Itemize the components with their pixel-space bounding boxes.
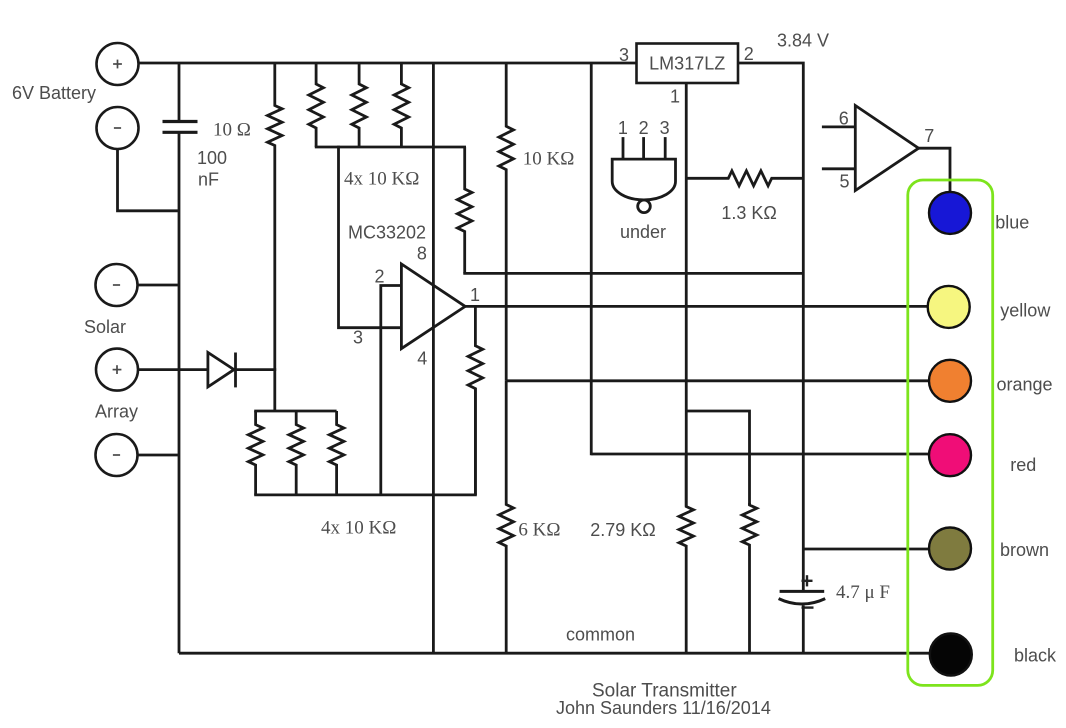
solar plus terminal — [96, 349, 138, 391]
wire top supply rail — [139, 62, 637, 65]
svg-text:2: 2 — [744, 44, 754, 64]
connector panel green outline — [908, 180, 993, 685]
voltage regulator U2 LM317LZ box — [637, 44, 739, 84]
svg-text:2: 2 — [374, 267, 384, 287]
wire regulator output to 3.84V node — [738, 63, 803, 591]
buffer U4 triangle — [855, 106, 918, 191]
resistor R11 6K — [499, 381, 514, 653]
svg-text:3.84 V: 3.84 V — [777, 31, 829, 51]
wire resistor R5 to regulator node — [463, 272, 803, 275]
wire inverting input pin 2 — [381, 286, 402, 495]
wire battery minus to node — [118, 149, 178, 211]
resistor R14 2.79K right — [742, 503, 757, 653]
wire op-amp supply column — [432, 63, 435, 653]
wire bus bar under resistor pack — [315, 146, 466, 149]
capacitor C2 curved plate — [779, 599, 826, 604]
wire ground bar under bottom pack — [254, 493, 477, 496]
wire solar plus to diode — [138, 368, 208, 371]
svg-text:1: 1 — [618, 118, 628, 138]
svg-text:1: 1 — [670, 87, 680, 107]
svg-text:10 KΩ: 10 KΩ — [523, 149, 575, 170]
resistor R5 feedback upper — [457, 147, 472, 273]
wire capacitor to common — [802, 606, 805, 654]
svg-text:Solar: Solar — [84, 317, 126, 337]
svg-text:4.7 μ F: 4.7 μ F — [836, 582, 890, 603]
wire capacitor down left column — [178, 134, 181, 654]
diode D1 — [208, 353, 234, 387]
wire buffer output to blue — [919, 148, 950, 192]
op-amp U1 MC33202 — [401, 264, 465, 349]
resistor R10 10K — [329, 411, 344, 495]
terminal black — [930, 634, 972, 676]
terminal red — [929, 434, 971, 476]
resistor R9 10K — [289, 411, 304, 495]
resistor R13 2.79K left — [679, 454, 694, 653]
capacitor C2 4.7uF plus sign — [802, 580, 813, 582]
wire red line — [591, 453, 928, 456]
wire regulator adjust pin 1 column — [685, 83, 688, 507]
svg-text:6: 6 — [839, 108, 849, 128]
resistor R2 10K — [309, 63, 324, 147]
svg-text:2.79 KΩ: 2.79 KΩ — [590, 520, 656, 540]
resistor R8 10K — [248, 411, 263, 495]
svg-text:10 Ω: 10 Ω — [213, 120, 251, 141]
wire jog to second divider resistor — [686, 411, 749, 505]
solar minus terminal lower — [96, 434, 138, 476]
svg-text:blue: blue — [995, 213, 1029, 233]
svg-text:orange: orange — [997, 374, 1053, 394]
svg-text:7: 7 — [924, 126, 934, 146]
capacitor C2 top plate — [780, 590, 825, 593]
wire solar minus lower — [138, 454, 178, 457]
svg-text:4x 10 KΩ: 4x 10 KΩ — [321, 518, 396, 539]
capacitor C2 minus sign — [802, 606, 814, 608]
resistor R1 10 ohm — [268, 63, 283, 411]
battery positive terminal — [97, 43, 139, 85]
terminal brown — [929, 528, 971, 570]
svg-text:black: black — [1014, 646, 1057, 666]
wire node A down to capacitor — [178, 63, 181, 121]
solar minus terminal upper — [96, 264, 138, 306]
svg-text:6 KΩ: 6 KΩ — [518, 520, 560, 541]
resistor R7 on output to ground bar — [468, 306, 483, 495]
sensor output bubble — [638, 200, 651, 213]
svg-text:nF: nF — [198, 170, 219, 190]
svg-text:2: 2 — [639, 118, 649, 138]
svg-text:common: common — [566, 625, 635, 645]
svg-text:3: 3 — [660, 118, 670, 138]
wire orange line — [506, 379, 930, 382]
wire solar minus upper — [138, 284, 178, 287]
svg-text:100: 100 — [197, 148, 227, 168]
svg-text:red: red — [1010, 455, 1036, 475]
sensor U3 gate body — [612, 159, 675, 200]
resistor R12 1.3K — [686, 171, 803, 186]
wire sense column from rail — [590, 63, 593, 455]
resistor R3 10K — [352, 63, 367, 147]
wire bus bar above bottom pack — [254, 410, 336, 413]
wire diode cathode to node — [234, 368, 276, 371]
wire non-inverting input pin 3 — [339, 146, 402, 328]
terminal orange — [929, 360, 971, 402]
wire 3.84V column to brown — [803, 548, 928, 551]
resistor R6 10K — [499, 63, 514, 381]
svg-text:3: 3 — [619, 45, 629, 65]
terminal blue — [929, 192, 971, 234]
svg-text:under: under — [620, 222, 666, 242]
wire op-amp output to yellow — [465, 305, 929, 308]
svg-text:4: 4 — [417, 349, 427, 369]
wire bar up to resistor R7 — [474, 388, 477, 495]
svg-text:5: 5 — [839, 172, 849, 192]
svg-text:Array: Array — [95, 402, 138, 422]
svg-text:4x 10 KΩ: 4x 10 KΩ — [344, 169, 419, 190]
svg-text:John Saunders 11/16/2014: John Saunders 11/16/2014 — [556, 698, 771, 718]
resistor R4 10K — [394, 63, 409, 147]
svg-text:MC33202: MC33202 — [348, 223, 426, 243]
svg-text:LM317LZ: LM317LZ — [649, 54, 725, 74]
wire common rail — [179, 652, 930, 655]
svg-text:1: 1 — [470, 285, 480, 305]
wire buffer input pin 5 — [822, 167, 855, 170]
svg-text:8: 8 — [417, 244, 427, 264]
sensor pin stubs 1 2 3 — [622, 137, 625, 159]
capacitor C1 100nF plates — [163, 120, 198, 123]
svg-text:1.3 KΩ: 1.3 KΩ — [721, 203, 777, 223]
svg-text:yellow: yellow — [1000, 300, 1051, 320]
svg-text:3: 3 — [353, 328, 363, 348]
svg-text:brown: brown — [1000, 540, 1049, 560]
wire buffer input pin 6 — [822, 126, 855, 129]
battery negative terminal — [97, 107, 139, 149]
svg-text:6V Battery: 6V Battery — [12, 83, 96, 103]
terminal yellow — [928, 286, 970, 328]
